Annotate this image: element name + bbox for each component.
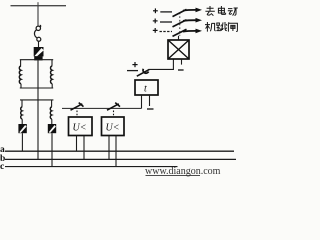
Chinese caption 去电动 (to electric mo-) <box>205 6 237 16</box>
wire: relay2 right lead to bus c <box>115 136 117 167</box>
wire: secondary right to fuse FU2 <box>51 119 53 124</box>
wire: relay2 left lead to bus b <box>108 136 110 160</box>
contact KV2 (NO contact of U< relay 2) <box>107 103 120 111</box>
bus a <box>5 150 234 152</box>
disconnector QS (hook-and-ring symbol) <box>34 25 40 41</box>
wire: relay1 right lead to bus b <box>83 136 85 160</box>
glyph 电 <box>218 6 225 14</box>
winding: secondary left <box>21 107 23 119</box>
arrow row 2 (to motor trip) <box>183 18 202 23</box>
winding: primary left <box>19 66 21 84</box>
wire: disconnector to breaker QF <box>38 41 40 47</box>
HV bus bar <box>11 5 67 7</box>
signal relay KS box with X <box>168 40 189 59</box>
bus tap stub <box>37 2 39 5</box>
contact blade row 1 <box>173 9 187 16</box>
wire: phase-B straight lead through transformer to bus b <box>37 60 39 159</box>
wire: KT coil right lead (to minus) <box>149 95 151 106</box>
linkage: KV2 contact to relay box <box>113 111 115 117</box>
terminal blob on transformer T1 top bar <box>34 56 42 60</box>
plus mark at KT delayed contact <box>132 62 137 67</box>
wire: secondary left to fuse FU1 <box>21 119 23 124</box>
arrow row 1 (to motor trip) <box>183 8 202 13</box>
minus mark under KT <box>147 108 154 110</box>
wire: KS bottom right stub to minus <box>181 59 183 65</box>
wire: KT contact to signal relay KS <box>149 60 173 70</box>
winding: primary right <box>51 66 53 84</box>
svg-text:c: c <box>0 162 4 172</box>
winding: secondary right <box>50 107 52 119</box>
glyph 跳 <box>216 22 227 31</box>
circuit breaker QF (black square with white band) <box>34 47 44 56</box>
contact KT (time-delay closing) blade <box>137 69 150 76</box>
delay cup on blade <box>143 69 149 73</box>
contact KV1 (NO contact of U< relay 1) <box>71 103 84 111</box>
wire: row2 stub <box>160 21 172 23</box>
transformer T1 primary top bar <box>20 59 53 61</box>
Chinese caption 机跳闸 (-tor trip) <box>205 22 237 32</box>
wire: secondary right lead <box>51 100 53 107</box>
wire: plus stub <box>127 70 138 72</box>
wire: KT coil left lead to contact line <box>141 95 143 108</box>
linkage: KV1 contact to relay box <box>76 111 78 117</box>
svg-text:t: t <box>144 84 147 95</box>
watermark underline <box>146 174 201 176</box>
relay U< box 2 <box>102 117 125 136</box>
wire: row1 stub <box>160 11 172 13</box>
wire: primary left lead <box>20 60 22 66</box>
bus b <box>5 158 236 160</box>
fuse FU1 (black square with white band) <box>18 124 26 133</box>
glyph 去 <box>205 6 214 16</box>
plus mark row 3 <box>153 28 158 33</box>
wire: primary left bottom lead <box>20 84 22 88</box>
bus c <box>5 166 178 168</box>
plus mark row 2 <box>153 19 158 24</box>
time relay KT box <box>135 80 158 95</box>
wire: fuse FU1 to bus a <box>21 133 23 151</box>
svg-text:U<: U< <box>73 123 87 134</box>
linkage: ganged trip contacts to KS <box>179 13 181 36</box>
wire: primary right lead <box>51 60 53 66</box>
svg-text:U<: U< <box>106 123 120 134</box>
transformer T1 secondary top bar <box>20 99 53 101</box>
control wire with KV contacts <box>62 107 142 109</box>
glyph 闸 <box>228 22 237 31</box>
fuse FU2 (black square with white band) <box>48 124 56 133</box>
relay U< box 1 <box>69 117 93 136</box>
wire: fuse FU2 to bus c <box>51 133 53 166</box>
wire: KS top lead <box>178 36 180 40</box>
minus mark under KS <box>178 69 184 71</box>
arrow row 3 (to motor trip) <box>183 29 202 34</box>
contact blade row 2 <box>173 20 187 27</box>
wire: secondary left lead <box>21 100 23 107</box>
wire: row3 stub (dashed) <box>160 31 173 33</box>
glyph 机 <box>205 22 216 32</box>
wire: primary right bottom lead <box>51 84 53 88</box>
contact blade row 3 <box>173 29 187 36</box>
wire: relay1 left lead to bus a <box>76 136 78 152</box>
transformer T1 primary bottom bar <box>20 87 53 89</box>
plus mark row 1 <box>153 8 158 13</box>
wire: bus to disconnector QS <box>37 6 39 27</box>
glyph 动 <box>228 8 238 16</box>
